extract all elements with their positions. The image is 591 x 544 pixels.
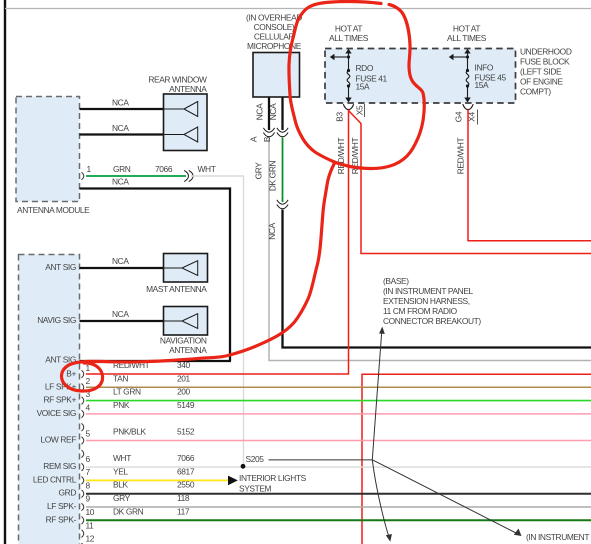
svg-text:(LEFT SIDE: (LEFT SIDE (520, 67, 562, 77)
svg-text:ANTENNA MODULE: ANTENNA MODULE (17, 205, 90, 215)
svg-text:CELLULAR: CELLULAR (254, 32, 295, 42)
wire RED/WHT from fuse 41 B3 down to radio B+ row (86, 110, 349, 375)
row 10 wire DK GRN 117 (86, 519, 591, 521)
cellular microphone box (253, 53, 300, 98)
svg-text:201: 201 (177, 373, 191, 383)
connector on wire B (277, 128, 288, 137)
svg-text:RED/WHT: RED/WHT (455, 138, 465, 175)
svg-text:6817: 6817 (177, 466, 195, 476)
leader line junction to IN INSTRUMENT text (372, 460, 519, 535)
svg-text:NAVIGATION: NAVIGATION (160, 336, 207, 346)
svg-text:15A: 15A (356, 82, 371, 92)
wire GRN 7066 (86, 175, 186, 177)
svg-text:ANTENNA: ANTENNA (169, 345, 207, 355)
leader line junction down to bottom arrow (372, 460, 389, 537)
wire RED/WHT from fuse 45 G4 down and right (468, 110, 591, 241)
svg-text:G4: G4 (454, 111, 464, 122)
svg-text:INTERIOR LIGHTS: INTERIOR LIGHTS (239, 473, 307, 483)
svg-text:GRD: GRD (59, 488, 77, 498)
svg-text:2550: 2550 (177, 480, 195, 490)
splice S205 dot (241, 464, 246, 469)
svg-text:A: A (249, 136, 259, 142)
svg-text:ALL TIMES: ALL TIMES (329, 33, 369, 43)
interior lights arrowhead (228, 476, 238, 486)
svg-text:NCA: NCA (112, 177, 129, 187)
svg-text:4: 4 (86, 403, 91, 413)
svg-text:FUSE BLOCK: FUSE BLOCK (520, 57, 570, 67)
svg-text:SYSTEM: SYSTEM (239, 484, 272, 494)
wire RED/WHT splice branch right (349, 111, 591, 254)
row 4 wire PNK 5149 (86, 413, 591, 415)
mast antenna box (164, 254, 208, 283)
svg-text:11: 11 (86, 520, 95, 530)
svg-text:LF SPK-: LF SPK- (47, 501, 77, 511)
svg-text:BLK: BLK (113, 480, 128, 490)
svg-text:7066: 7066 (155, 164, 173, 174)
svg-text:(IN OVERHEAD: (IN OVERHEAD (246, 13, 302, 23)
svg-text:5152: 5152 (177, 427, 195, 437)
wire RED/WHT right segment of B+ row going down (362, 374, 591, 544)
svg-text:7066: 7066 (177, 453, 195, 463)
svg-text:WHT: WHT (198, 164, 216, 174)
wire mic pin B NCA (281, 97, 283, 130)
fuse RDO FUSE 41 15A (330, 49, 352, 103)
top page border (5, 8, 591, 10)
wire WHT 7066 to S205 (191, 176, 244, 466)
row 3 wire LT GRN 200 (86, 400, 591, 402)
svg-text:ANTENNA: ANTENNA (169, 84, 207, 94)
svg-text:NCA: NCA (255, 103, 265, 120)
svg-text:NCA: NCA (267, 222, 277, 239)
svg-text:GRN: GRN (113, 164, 131, 174)
row 5 wire PNK/BLK 5152 (86, 440, 591, 442)
svg-text:NCA: NCA (112, 98, 129, 108)
svg-text:(BASE): (BASE) (383, 276, 409, 286)
svg-text:8: 8 (86, 480, 91, 490)
svg-text:LT GRN: LT GRN (113, 387, 141, 397)
svg-text:7: 7 (86, 467, 91, 477)
left page border (4, 0, 6, 544)
red annotation blob around fuse 41 (289, 1, 424, 168)
svg-text:LOW REF: LOW REF (41, 435, 77, 445)
wire GRY from mic A (269, 138, 591, 361)
S205 leader line (269, 459, 373, 461)
svg-text:TAN: TAN (113, 373, 128, 383)
svg-text:RDO: RDO (356, 63, 374, 73)
svg-text:REM SIG: REM SIG (43, 461, 76, 471)
svg-text:118: 118 (177, 493, 190, 503)
svg-text:NCA: NCA (112, 256, 129, 266)
wire NCA radio to navigation antenna (80, 320, 164, 322)
svg-text:GRY: GRY (254, 162, 264, 180)
svg-text:LED CNTRL: LED CNTRL (33, 474, 77, 484)
wire DK GRN from mic B (282, 138, 284, 203)
svg-text:6: 6 (86, 454, 91, 464)
row 8 wire BLK 2550 (86, 493, 591, 495)
svg-text:PNK/BLK: PNK/BLK (113, 427, 147, 437)
svg-text:PNK: PNK (113, 400, 130, 410)
svg-text:RED/WHT: RED/WHT (336, 138, 346, 175)
svg-text:B+: B+ (66, 368, 76, 378)
svg-text:12: 12 (86, 534, 95, 544)
svg-text:MICROPHONE: MICROPHONE (247, 41, 302, 51)
antenna module box (16, 97, 80, 202)
red annotation tail to B+ circle (61, 164, 334, 391)
svg-text:(IN INSTRUMENT PANEL: (IN INSTRUMENT PANEL (383, 286, 474, 296)
svg-text:HOT AT: HOT AT (335, 24, 362, 34)
antenna element triangle 1 (164, 102, 198, 143)
wire NCA module pin4 to radio ANT SIG (80, 189, 231, 362)
svg-text:NCA: NCA (268, 103, 278, 120)
underhood fuse block box (325, 49, 516, 104)
radio pin connector arcs (82, 370, 84, 544)
svg-text:VOICE SIG: VOICE SIG (37, 408, 76, 418)
module pin 1 connector arc (82, 172, 84, 180)
svg-text:11 CM FROM RADIO: 11 CM FROM RADIO (383, 306, 458, 316)
svg-text:10: 10 (86, 507, 95, 517)
svg-text:NCA: NCA (112, 309, 129, 319)
svg-text:EXTENSION HARNESS,: EXTENSION HARNESS, (383, 296, 470, 306)
svg-text:2: 2 (86, 376, 91, 386)
svg-text:UNDERHOOD: UNDERHOOD (520, 47, 572, 57)
svg-text:DK GRN: DK GRN (113, 506, 144, 516)
svg-text:INFO: INFO (475, 63, 494, 73)
svg-text:DK GRN: DK GRN (268, 161, 278, 192)
svg-text:NCA: NCA (112, 123, 129, 133)
inline connector on wire 7066 (184, 170, 193, 181)
svg-text:RF SPK-: RF SPK- (46, 514, 77, 524)
row 2 wire TAN 201 (86, 386, 591, 388)
svg-text:S205: S205 (246, 454, 265, 464)
radio box (19, 255, 80, 544)
svg-text:WHT: WHT (113, 453, 131, 463)
connector under fuse 41 pin B3/X5 (343, 104, 353, 109)
rear window antenna box (164, 94, 208, 151)
svg-text:MAST ANTENNA: MAST ANTENNA (146, 284, 207, 294)
svg-text:15A: 15A (475, 80, 490, 90)
svg-text:(IN INSTRUMENT: (IN INSTRUMENT (526, 532, 589, 542)
svg-text:117: 117 (177, 506, 190, 516)
svg-text:GRY: GRY (113, 493, 131, 503)
mast antenna triangle (164, 261, 198, 276)
svg-text:9: 9 (86, 494, 91, 504)
svg-text:NAVIG SIG: NAVIG SIG (37, 315, 76, 325)
row 9 wire GRY 118 (86, 506, 591, 508)
svg-text:RF SPK+: RF SPK+ (44, 395, 77, 405)
svg-text:REAR WINDOW: REAR WINDOW (148, 75, 207, 85)
fuse INFO FUSE 45 15A (449, 49, 471, 103)
navigation antenna triangle (164, 314, 198, 329)
antenna element triangle 2 (164, 127, 198, 142)
svg-text:1: 1 (87, 164, 92, 174)
connector under fuse 45 pin G4/X4 (463, 104, 473, 109)
svg-text:HOT AT: HOT AT (453, 24, 480, 34)
svg-text:B3: B3 (335, 112, 345, 122)
row 7 wire YEL 6817 (86, 479, 228, 481)
connector on DK GRN wire (277, 200, 288, 209)
connector on wire A (263, 128, 274, 137)
svg-text:OF ENGINE: OF ENGINE (520, 77, 563, 87)
svg-text:200: 200 (177, 387, 191, 397)
svg-text:COMPT): COMPT) (520, 87, 551, 97)
wire radio ANT SIG 2 (80, 360, 232, 362)
svg-text:ANT SIG: ANT SIG (45, 262, 76, 272)
svg-text:B: B (262, 136, 272, 142)
svg-text:YEL: YEL (113, 466, 128, 476)
navigation antenna box (164, 307, 208, 336)
svg-text:5: 5 (86, 429, 91, 439)
wire NCA radio to mast antenna (80, 267, 164, 269)
svg-text:CONNECTOR BREAKOUT): CONNECTOR BREAKOUT) (383, 316, 481, 326)
svg-text:X5: X5 (354, 105, 364, 115)
svg-text:ALL TIMES: ALL TIMES (447, 33, 487, 43)
svg-text:5149: 5149 (177, 400, 195, 410)
row 6 wire WHT 7066 (86, 466, 591, 468)
wire mic pin A NCA (268, 97, 270, 130)
wire NCA from connector down and right (283, 210, 591, 348)
wire NCA module pin2 to rear window antenna (80, 133, 164, 135)
leader line junction to BASE text with up arrow (372, 331, 382, 460)
svg-text:CONSOLE): CONSOLE) (254, 22, 295, 32)
wire NCA module pin1 to rear window antenna (80, 108, 164, 110)
